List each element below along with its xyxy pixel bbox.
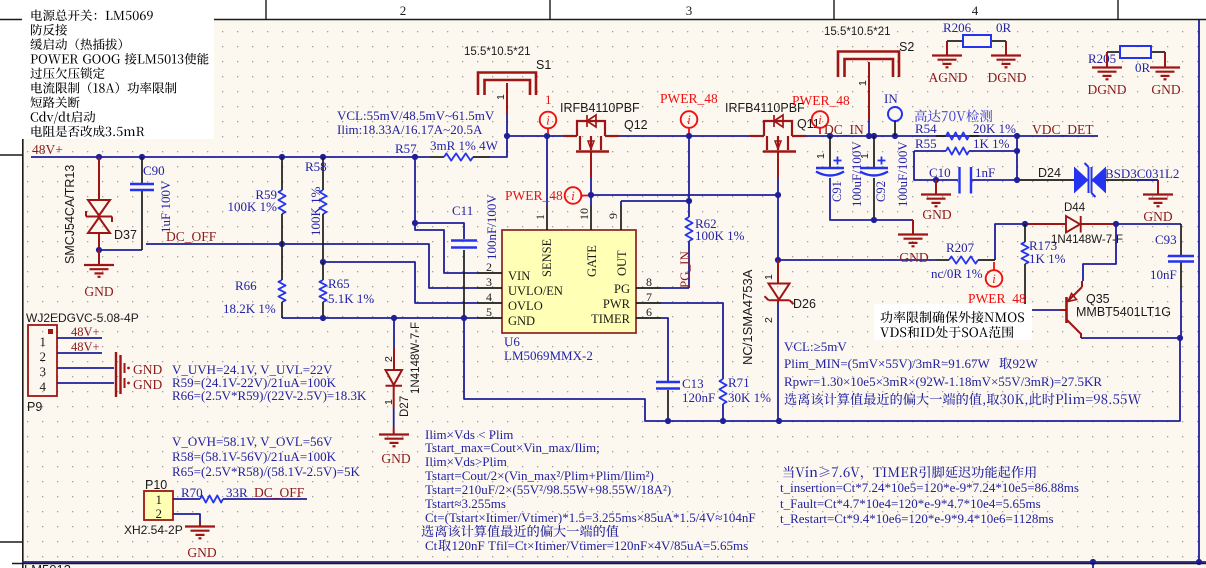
svg-text:D24: D24 [1038,166,1061,180]
svg-text:Tstart=Cout/2×(Vin_max²/Plim+P: Tstart=Cout/2×(Vin_max²/Plim+Plim/Ilim²) [425,468,654,483]
svg-text:1: 1 [156,492,163,507]
svg-text:100K 1%: 100K 1% [308,186,323,236]
svg-text:AGND: AGND [929,70,968,85]
svg-text:PWER_48: PWER_48 [660,91,718,106]
junctions GND row [320,315,326,321]
junction bottom loop [665,418,671,424]
svg-text:SENSE: SENSE [540,238,554,277]
svg-text:48V+: 48V+ [71,340,100,354]
svg-text:1: 1 [495,94,507,100]
svg-text:1: 1 [859,153,871,159]
wire R71 bottom lead [722,404,724,421]
S1 pin 1 [506,83,508,114]
svg-text:Ct=(Tstart×Itimer/Vtimer)*1.5=: Ct=(Tstart×Itimer/Vtimer)*1.5=3.255ms×85… [425,510,756,525]
wire bottom timer loop [464,318,1180,421]
svg-text:D37: D37 [114,228,137,242]
svg-text:SMCJ54CA/TR13: SMCJ54CA/TR13 [63,165,77,264]
ground DGND [1005,41,1007,55]
junction OUT [686,198,692,204]
svg-text:Rpwr=1.30×10e5×3mR×(92W-1.18mV: Rpwr=1.30×10e5×3mR×(92W-1.18mV×55V/3mR)=… [784,374,1102,389]
svg-text:3: 3 [40,364,47,379]
svg-text:GND: GND [381,451,410,466]
wire DC_OFF [146,244,477,288]
svg-text:MMBT5401LT1G: MMBT5401LT1G [1076,305,1171,319]
wire C91 C92 ground row [830,178,913,220]
svg-text:R65: R65 [328,276,350,291]
svg-text:10: 10 [577,208,591,220]
annotation 70V detect [915,110,993,123]
svg-text:i: i [992,272,996,286]
svg-text:1: 1 [815,153,827,159]
svg-text:D26: D26 [793,297,816,311]
diode D27 1N4148W-7-F [393,318,395,348]
wire D24 to GND [1106,179,1158,181]
wire C10 to D24 [1017,179,1074,181]
svg-text:i: i [546,114,550,128]
junction R58 R65 [320,259,326,265]
wire PG net [661,287,689,289]
svg-text:OUT: OUT [615,250,629,276]
svg-text:C90: C90 [143,163,165,178]
wire D26 bottom lead [777,303,779,421]
svg-text:GND: GND [1151,82,1180,97]
svg-text:1: 1 [763,274,775,280]
svg-text:1: 1 [857,80,869,86]
svg-text:C11: C11 [452,203,473,218]
svg-text:UVLO/EN: UVLO/EN [508,284,563,298]
wire GATE net [590,178,592,205]
svg-text:1K 1%: 1K 1% [1029,251,1066,266]
svg-text:D27: D27 [399,396,411,417]
svg-text:9: 9 [606,213,620,219]
svg-text:4: 4 [972,3,979,18]
power port GND bars P9 [115,352,117,397]
wire 48V+ rail [31,156,430,158]
svg-text:Ilim:18.33A/16.17A~20.5A: Ilim:18.33A/16.17A~20.5A [337,122,483,137]
svg-text:DGND: DGND [988,70,1027,85]
svg-text:R57: R57 [395,141,417,156]
P9 pin wires GND [57,367,114,369]
svg-text:OVLO: OVLO [508,299,543,313]
svg-text:8: 8 [646,275,652,289]
wire bottom rail [22,561,1206,563]
svg-text:XH2.54-2P: XH2.54-2P [124,523,183,537]
wire C93 top lead [1180,224,1182,256]
svg-text:100nF/100V: 100nF/100V [484,194,499,260]
resistor R71 [719,379,726,404]
svg-text:10nF: 10nF [1150,267,1177,282]
svg-text:20K 1%: 20K 1% [973,121,1016,136]
wire Q12-Q11 rail segment [619,135,750,137]
Q11 gate lead [777,155,779,178]
svg-text:100uF/100V: 100uF/100V [895,141,910,207]
resistor R207 nc/0R [936,259,949,261]
svg-text:R54: R54 [915,121,937,136]
annotation white box SOA [874,304,1032,340]
junction C10 gnd [933,177,939,183]
svg-text:DGND: DGND [1088,82,1127,97]
svg-text:48V+: 48V+ [71,325,100,339]
svg-text:100K 1%: 100K 1% [695,228,745,243]
svg-text:PWER_48: PWER_48 [792,93,850,108]
U6 left pin lines [477,272,502,274]
diode D37 TVS SMCJ54CA/TR13 [98,157,100,201]
svg-text:R70: R70 [181,485,203,500]
svg-text:92W: 92W [1013,356,1039,371]
svg-text:120nF: 120nF [452,538,485,553]
svg-text:i: i [687,113,691,127]
svg-text:1N4148W-7-F: 1N4148W-7-F [1051,234,1123,246]
annotation box top left [22,4,214,139]
svg-text:33R: 33R [226,485,248,500]
wire VDC_DET column [1016,136,1018,180]
S2 pin 1 [868,62,870,120]
svg-text:R65=(2.5V*R58)/(58.1V-2.5V)=5K: R65=(2.5V*R58)/(58.1V-2.5V)=5K [172,464,360,479]
svg-text:120nF: 120nF [682,390,715,405]
ground GND below P10 [185,525,215,527]
svg-text:VCL:55mV/48.5mV~61.5mV: VCL:55mV/48.5mV~61.5mV [337,108,495,123]
svg-text:Ct: Ct [425,538,438,553]
wire Q35 collector to C93 leg [1080,333,1082,338]
svg-text:i: i [818,113,822,127]
svg-text:GND: GND [1143,209,1172,224]
wire OUT to R62 [620,201,622,205]
svg-text:PWER_48: PWER_48 [968,291,1026,306]
wire bottom stub [1092,562,1094,568]
svg-text:D44: D44 [1064,202,1086,214]
annotation timer block [783,466,1036,480]
svg-text:VCL:≥5mV: VCL:≥5mV [784,339,847,354]
svg-text:R207: R207 [946,240,975,255]
svg-text:VDC_DET: VDC_DET [1032,122,1094,137]
svg-text:IRFB4110PBF: IRFB4110PBF [560,101,640,115]
wire D44 to C93 [1116,223,1181,225]
svg-text:15.5*10.5*21: 15.5*10.5*21 [464,46,531,58]
svg-text:V_OVH=58.1V, V_OVL=56V: V_OVH=58.1V, V_OVL=56V [172,434,333,449]
junction D44 left [1022,221,1028,227]
probe marker at gate wire [565,187,582,204]
svg-text:5: 5 [486,305,492,319]
junctions bottom rail [1090,559,1096,565]
svg-text:R71: R71 [728,375,750,390]
svg-text:7: 7 [646,290,652,304]
svg-text:Tstart=210uF/2×(55V²/98.55W+98: Tstart=210uF/2×(55V²/98.55W+98.55W/18A²) [425,482,671,497]
capacitor C10 [958,167,960,194]
U6 right pin lines [636,287,661,289]
svg-text:2: 2 [40,349,47,364]
svg-text:TIMER: TIMER [591,312,631,326]
svg-text:4: 4 [486,290,492,304]
resistor R55 [946,147,969,154]
svg-text:t_Restart=Ct*9.4*10e6=120*e-9*: t_Restart=Ct*9.4*10e6=120*e-9*9.4*10e6=1… [780,511,1054,526]
svg-text:3: 3 [486,275,492,289]
svg-text:WJ2EDGVC-5.08-4P: WJ2EDGVC-5.08-4P [26,311,139,325]
wire Q35 emitter leg [1083,224,1116,281]
svg-text:R206: R206 [943,20,972,35]
wire right edge vertical [1198,20,1200,562]
svg-text:R55: R55 [915,136,937,151]
wire D44 anode lead [1025,223,1066,225]
capacitor C91 100uF/100V [829,136,831,167]
junctions VDC_DET column [1014,133,1020,139]
svg-text:nc/0R 1%: nc/0R 1% [931,266,983,281]
wire R55 row [914,150,946,152]
wire VIN to C11 [415,223,464,239]
svg-text:100uF/100V: 100uF/100V [849,141,864,207]
svg-text:S1: S1 [536,58,551,72]
svg-text:t_Fault=Ct*4.7*10e4=120*e-9*4.: t_Fault=Ct*4.7*10e4=120*e-9*4.7*10e4=5.6… [780,496,1041,511]
resistor R70 [173,498,200,500]
svg-text:GND: GND [508,314,535,328]
svg-text:C92: C92 [874,181,888,202]
svg-text:Q11: Q11 [797,117,820,131]
svg-text:1K 1%: 1K 1% [973,136,1010,151]
svg-text:R58=(58.1V-56V)/21uA=100K: R58=(58.1V-56V)/21uA=100K [172,449,337,464]
wire rail PWER_48 segment [507,135,563,137]
wire C13 bottom lead [667,390,669,421]
svg-text:R58: R58 [305,159,327,174]
svg-text:C91: C91 [830,181,844,202]
mosfet Q11 IRFB4110PBF [750,135,764,137]
ground DGND left R205 [1106,52,1108,67]
svg-text:3: 3 [686,3,693,18]
resistor R173 [1021,242,1028,264]
wire C10 row [936,179,958,181]
svg-text:DC_OFF: DC_OFF [254,485,305,500]
svg-text:15.5*10.5*21: 15.5*10.5*21 [824,26,891,38]
wire Q11-DC_IN rail segment [806,135,1017,137]
svg-text:0R: 0R [996,20,1012,35]
svg-text:GND: GND [133,377,162,392]
wire OVLO [323,262,477,303]
junction D37 ground [96,247,102,253]
svg-text:Tstart_max=Cout×Vin_max/Ilim;: Tstart_max=Cout×Vin_max/Ilim; [425,440,600,455]
wire PWR to R71 [661,303,723,379]
wire rail to S1 corner [490,136,507,157]
wire GND pins row [282,317,477,319]
svg-text:PG_IN: PG_IN [677,251,692,288]
junction Q35 collector [1177,335,1183,341]
junction D44 right [1113,221,1119,227]
svg-text:VIN: VIN [508,269,530,283]
svg-text:PWER_48: PWER_48 [505,188,563,203]
svg-text:1uF 100V: 1uF 100V [158,180,173,233]
sheet border band [0,0,1206,19]
resistor R65 [322,262,324,280]
svg-text:LM5069MMX-2: LM5069MMX-2 [504,348,593,363]
junction rail caps [827,133,833,139]
wire VIN to pin2 [415,223,477,273]
svg-text:C13: C13 [682,376,704,391]
svg-text:P10: P10 [145,478,167,492]
svg-text:1nF: 1nF [975,165,995,180]
svg-text:1: 1 [40,334,47,349]
svg-text:GATE: GATE [585,245,599,277]
junction dots on 48V+ rail [96,154,102,160]
wire Q35 base leg [1024,264,1026,310]
wire C93 bottom lead [1180,261,1182,290]
svg-text:5.1K 1%: 5.1K 1% [328,291,374,306]
resistor R62 [685,217,692,241]
ground GND right of D24 [1157,180,1159,194]
junction D26 node [775,257,781,263]
svg-text:48V+: 48V+ [32,142,63,157]
capacitor C13 [656,381,680,383]
P10 pin2 to ground [173,514,200,521]
svg-text:2: 2 [486,260,492,274]
svg-text:P9: P9 [27,400,42,414]
junction cap gnd row [871,217,877,223]
svg-text:100K 1%: 100K 1% [228,199,278,214]
wire VDC_DET segment [1017,135,1098,137]
wire R207 up leg [995,224,1025,260]
svg-text:2: 2 [400,3,407,18]
svg-text:Q12: Q12 [624,118,648,132]
svg-text:1N4148W-7-F: 1N4148W-7-F [410,322,422,394]
svg-text:R66: R66 [235,278,257,293]
svg-text:R66=(2.5V*R59)/(22V-2.5V)=18.3: R66=(2.5V*R59)/(22V-2.5V)=18.3K [172,388,367,403]
junction gate net [588,192,594,198]
wire VIN drop [414,157,416,223]
svg-text:Ilim×Vds>Plim: Ilim×Vds>Plim [425,454,507,469]
transistor Q35 MMBT5401LT1G [1065,297,1068,323]
wire SENSE [546,136,548,205]
wire TIMER to C13 [661,318,668,381]
svg-text:18.2K 1%: 18.2K 1% [223,301,276,316]
ground GND right R205 [1164,52,1166,67]
svg-text:GND: GND [922,207,951,222]
svg-text:C10: C10 [929,165,951,180]
capacitor C93 [1168,255,1194,257]
capacitor C90 [141,157,143,183]
svg-text:1: 1 [545,92,552,107]
svg-text:NC/1SMA4753A: NC/1SMA4753A [740,269,755,365]
junction DC_OFF [279,241,285,247]
probe marker PWER_48 at R207 [986,270,1003,287]
svg-text:GND: GND [84,284,113,299]
wire gate to R207 [778,259,936,261]
Q12 gate lead [590,155,592,178]
svg-text:3mR 1% 4W: 3mR 1% 4W [430,138,499,153]
svg-text:Tstart≈3.255ms: Tstart≈3.255ms [425,496,506,511]
svg-text:GND: GND [133,362,162,377]
svg-text:1: 1 [383,399,395,405]
svg-text:30K 1%: 30K 1% [728,390,771,405]
junction S1 rail [504,133,510,139]
svg-text:R205: R205 [1088,51,1116,66]
wire R55 C10 left leg [914,151,936,180]
svg-text:IN: IN [884,91,898,106]
junction rail Q11 [686,133,692,139]
svg-text:2: 2 [383,356,395,362]
svg-text:6: 6 [646,305,652,319]
svg-text:4: 4 [40,379,47,394]
resistor R66 [281,244,283,280]
wire D44 cathode lead [1081,223,1116,225]
resistor R57 shunt [430,156,444,158]
svg-text:GND: GND [899,250,928,265]
resistor R54 [936,135,946,137]
svg-text:DC_OFF: DC_OFF [166,229,217,244]
svg-text:LM5013: LM5013 [24,562,71,568]
ground GND below caps [912,220,914,234]
wire D37 ground link [99,249,142,251]
svg-text:PWR: PWR [603,297,631,311]
svg-text:i: i [571,189,575,203]
P9 pin wires 48V+ [57,337,102,339]
diode D26 zener NC/1SMA4753A [777,260,779,284]
svg-text:BSD3C031L2: BSD3C031L2 [1105,166,1179,181]
ground GND below D37 [98,250,100,264]
sheet symbol LM5013 [12,563,1206,565]
svg-text:Tfil=Ct×Itimer/Vtimer=120nF×4V: Tfil=Ct×Itimer/Vtimer=120nF×4V/85uA=5.65… [488,538,748,553]
svg-text:U6: U6 [504,334,520,349]
svg-text:0R: 0R [1135,60,1151,75]
wire C11 bottom lead [463,250,465,318]
svg-text:GND: GND [187,545,216,560]
ground GND below C10 [935,180,937,194]
mosfet Q12 IRFB4110PBF [563,135,577,137]
svg-text:t_insertion=Ct*7.24*10e5=120*e: t_insertion=Ct*7.24*10e5=120*e-9*7.24*10… [780,480,1079,495]
svg-text:C93: C93 [1155,232,1177,247]
svg-text:1: 1 [533,214,547,220]
svg-text:2: 2 [763,317,775,323]
svg-text:Q35: Q35 [1086,292,1110,306]
svg-text:2: 2 [156,506,163,521]
resistor R58 [322,157,324,190]
U6 top pin lines [546,205,548,230]
svg-text:PG: PG [614,282,630,296]
resistor R59 [281,157,283,190]
ground AGND [946,41,948,55]
IC U6 LM5069MMX-2 body [502,230,636,333]
svg-text:Plim_MIN=(5mV×55V)/3mR=91.67W: Plim_MIN=(5mV×55V)/3mR=91.67W [784,356,991,371]
svg-text:S2: S2 [899,40,914,54]
ground GND below D27 [379,433,409,435]
capacitor C92 100uF/100V [873,136,875,167]
